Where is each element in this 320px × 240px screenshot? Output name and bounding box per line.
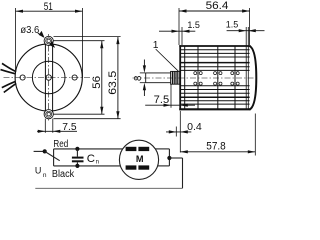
junction dot right: [167, 156, 171, 160]
schematic: supply stub: [34, 150, 45, 152]
svg-text:C: C: [87, 153, 95, 165]
dimension 56.4 line: [179, 10, 250, 12]
svg-text:n: n: [43, 172, 47, 179]
side view: thick fins: [181, 62, 250, 64]
dimension 0.4 line: [166, 131, 191, 133]
dimension 51 extension lines: [15, 8, 17, 70]
svg-text:Black: Black: [52, 169, 74, 180]
front view: lead wire 2: [1, 70, 16, 74]
dimension 57.8 line: [180, 151, 255, 153]
dimension 56 line: [101, 41, 103, 115]
front view: horizontal centerline: [4, 77, 92, 79]
front view: vertical centerline: [48, 34, 50, 121]
dimension 0.4 extension lines: [175, 127, 177, 137]
svg-text:57.8: 57.8: [206, 141, 226, 153]
front view: top mounting hole ø3.6: [47, 39, 50, 42]
svg-text:Red: Red: [53, 139, 68, 150]
side view: fins: [181, 50, 250, 104]
svg-text:51: 51: [44, 1, 53, 13]
capacitor Cn plates: [72, 157, 84, 159]
side view: rear cap: [249, 46, 256, 110]
svg-text:7.5: 7.5: [62, 122, 77, 133]
front view: mounting strap left line: [44, 43, 46, 112]
svg-text:0.4: 0.4: [187, 122, 202, 133]
front view: center shaft hole: [46, 75, 51, 80]
side view: shaft end face: [145, 73, 147, 83]
wire to frame: [169, 157, 182, 159]
side view: shaft top line: [146, 72, 180, 74]
schematic: switch blade: [45, 151, 60, 160]
capacitor Cn bottom junction: [75, 164, 79, 168]
side view: shaft bottom line: [146, 82, 180, 84]
side view: body top edge: [179, 45, 250, 47]
svg-text:M: M: [136, 154, 144, 164]
dimension 1.5 right line: [227, 30, 265, 32]
front view: lead wire 3: [2, 81, 16, 87]
dimension 56.4 extension lines: [178, 8, 180, 45]
svg-text:7.5: 7.5: [154, 94, 170, 106]
front view: right side hole: [72, 75, 77, 80]
motor winding blocks: [126, 147, 137, 151]
side view: rear flange lines: [245, 27, 247, 109]
dimension 7.5 front line: [37, 130, 77, 132]
svg-text:56.4: 56.4: [206, 0, 229, 12]
capacitor Cn leads: [76, 149, 78, 157]
svg-text:8: 8: [133, 75, 144, 81]
schematic: left vertical link: [53, 149, 55, 166]
leader 1: [156, 49, 179, 71]
schematic: red wire: [54, 148, 123, 150]
front view: mounting strap right line: [52, 43, 54, 112]
dimension 7.5 front extension lines: [44, 119, 46, 133]
svg-text:63.5: 63.5: [107, 71, 119, 95]
side view: knurled shaft end: [171, 71, 180, 84]
dimension 63.5 extension lines: [54, 36, 121, 38]
svg-text:n: n: [96, 160, 99, 166]
dimension 7.5 side extension line: [170, 85, 172, 108]
dimension 8 arrows: [143, 60, 145, 67]
side view: rivet circles: [194, 72, 239, 86]
svg-text:1.5: 1.5: [187, 20, 200, 30]
frame bottom wire: [35, 187, 182, 189]
dimension 57.8 extension line: [254, 114, 256, 156]
dimension 7.5 side line: [145, 104, 195, 106]
schematic: switch pole dot: [43, 149, 47, 153]
side view: section divider lines: [185, 47, 235, 110]
dimension 1.5 left extension line: [181, 27, 183, 45]
capacitor Cn top junction: [75, 147, 79, 151]
front view: bottom mounting tab boss: [44, 110, 53, 119]
svg-text:U: U: [35, 165, 42, 175]
frame right vertical wire: [182, 158, 184, 188]
front view: left side hole: [20, 75, 25, 80]
side view: horizontal centerline: [133, 77, 259, 79]
front view: top mounting tab boss: [44, 36, 53, 45]
front view: inner boss circle: [32, 61, 65, 94]
dimension 56 extension lines: [54, 40, 105, 42]
svg-text:ø3.6: ø3.6: [20, 25, 39, 36]
dimension 8 extension lines: [140, 72, 146, 74]
front view: motor body outer circle: [15, 44, 82, 111]
motor right bottom wire: [158, 165, 170, 167]
motor right vertical bar: [168, 149, 170, 166]
front view: lead wire 1: [2, 63, 16, 71]
motor M circle: [119, 140, 158, 179]
dimension 51 line: [16, 10, 83, 12]
motor right top wire: [155, 148, 169, 150]
dimension 63.5 line: [117, 37, 119, 119]
svg-text:56: 56: [91, 76, 103, 89]
side view: body bottom edge: [179, 108, 250, 110]
dimension 1.5 left line: [159, 30, 195, 32]
front view: bottom mounting hole: [47, 113, 50, 116]
front view: lead wire 4: [4, 83, 16, 92]
svg-text:1.5: 1.5: [226, 20, 239, 30]
schematic: black wire: [54, 165, 121, 167]
side view: body front face: [179, 45, 181, 110]
leader ø3.6: [38, 33, 44, 37]
